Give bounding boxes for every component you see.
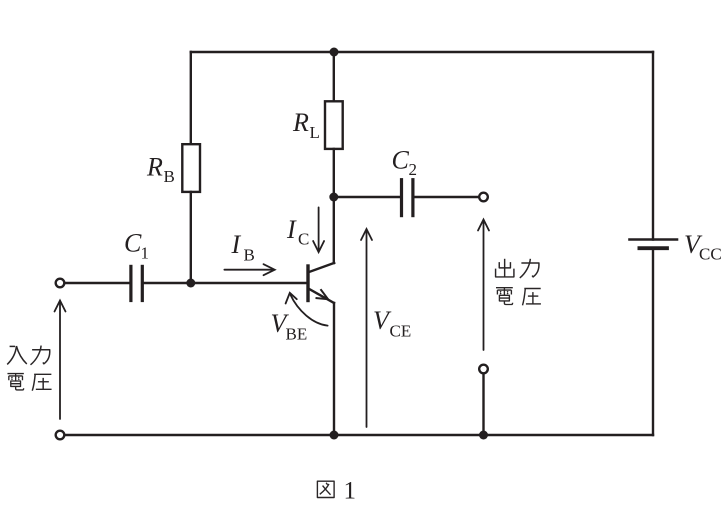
svg-text:C: C <box>124 229 142 258</box>
node collector output junction <box>329 193 338 202</box>
label IB <box>231 230 255 265</box>
wire input to C1 <box>66 282 130 284</box>
arrow IC <box>313 207 324 252</box>
node collector top junction <box>330 48 339 57</box>
svg-text:R: R <box>146 153 163 182</box>
battery VCC <box>630 240 678 249</box>
arrow VCE <box>361 229 372 427</box>
terminal output top <box>479 193 488 202</box>
terminal output bottom <box>479 365 488 374</box>
svg-text:I: I <box>231 230 242 259</box>
wire output lower terminal to rail <box>482 375 484 436</box>
node output ground junction <box>479 431 488 440</box>
arrow IB <box>224 264 274 275</box>
arrow VBE (curved) <box>286 293 328 326</box>
wire RL column lower (collector feed) <box>333 149 335 263</box>
arrow output voltage <box>478 220 489 351</box>
wire left branch (RB column upper) <box>190 52 192 144</box>
label IC <box>286 215 309 249</box>
capacitor C1 <box>131 266 142 300</box>
wire collector node to C2 <box>334 196 400 198</box>
svg-text:B: B <box>164 167 175 186</box>
svg-text:CC: CC <box>699 245 722 264</box>
svg-text:R: R <box>292 108 309 137</box>
svg-text:BE: BE <box>286 325 308 344</box>
svg-text:L: L <box>310 123 320 142</box>
svg-text:C: C <box>298 230 309 249</box>
caption figure 図 <box>317 481 334 497</box>
capacitor C2 <box>402 180 413 216</box>
wire right branch upper <box>652 52 654 240</box>
wire RB column lower <box>190 192 192 283</box>
node emitter ground junction <box>330 431 339 440</box>
label VBE <box>271 309 308 344</box>
label input voltage 力 <box>31 346 50 365</box>
resistor RB <box>182 144 200 192</box>
label input voltage 入 <box>7 346 27 364</box>
wire top rail <box>191 51 653 53</box>
wire RL column upper <box>333 52 335 101</box>
svg-text:1: 1 <box>344 478 357 505</box>
node base junction <box>186 279 195 288</box>
svg-text:B: B <box>244 246 255 265</box>
label C2 <box>392 146 418 180</box>
label RB <box>146 153 175 187</box>
wire right branch lower <box>652 248 654 435</box>
wire bottom rail <box>66 434 654 436</box>
svg-text:2: 2 <box>409 160 418 179</box>
arrow input voltage <box>55 301 66 420</box>
wire base lead <box>191 282 307 284</box>
label input voltage 圧 <box>32 374 51 390</box>
label input voltage 電 <box>7 374 23 390</box>
svg-text:CE: CE <box>390 322 412 341</box>
label VCE <box>373 306 411 341</box>
label output voltage 出 <box>496 259 514 277</box>
label VCC <box>684 230 722 264</box>
label output voltage 電 <box>496 288 513 305</box>
wire C2 to output terminal <box>415 196 479 198</box>
terminal input top <box>56 279 65 288</box>
wire C1 to base node <box>144 282 191 284</box>
svg-text:1: 1 <box>141 244 150 263</box>
label output voltage 圧 <box>523 289 541 306</box>
label output voltage 力 <box>520 259 539 278</box>
svg-text:C: C <box>392 146 410 175</box>
resistor RL <box>325 101 343 149</box>
label C1 <box>124 229 149 263</box>
svg-text:I: I <box>286 215 297 244</box>
label RL <box>292 108 320 142</box>
terminal input bottom <box>56 431 65 440</box>
transistor Q1 <box>308 263 334 435</box>
